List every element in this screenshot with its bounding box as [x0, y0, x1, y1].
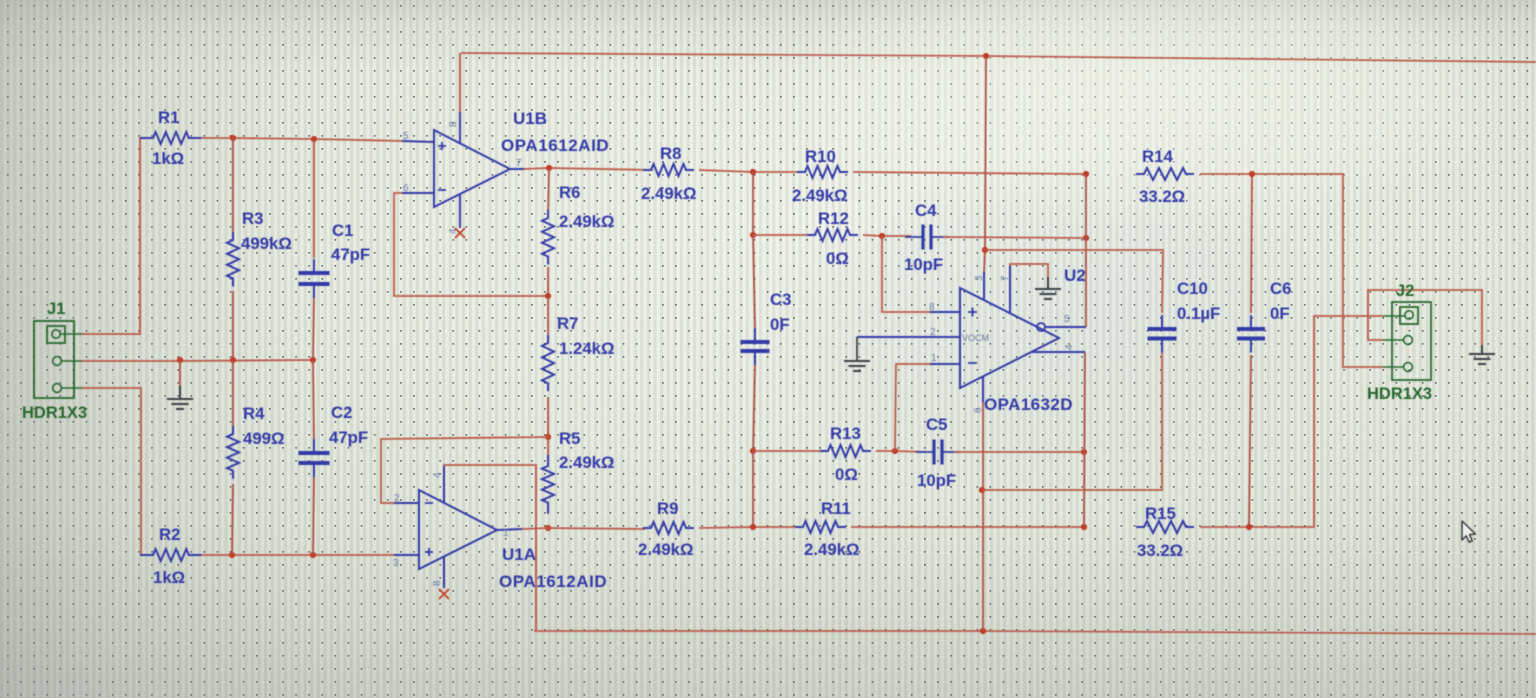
op-amp U1B [402, 112, 524, 228]
wire C3 upper lead [753, 235, 755, 328]
svg-text:R1: R1 [158, 108, 179, 127]
wire C2 bottom [313, 477, 314, 555]
wire R13 left [753, 450, 820, 452]
svg-text:J1: J1 [47, 300, 65, 318]
resistor R10 [797, 166, 848, 178]
resistor R13 [820, 445, 871, 457]
junction U2 pin3 / C10 branch [982, 247, 988, 253]
resistor R2 [140, 549, 202, 561]
wire U2 pin2 VOCM to ground [856, 337, 858, 360]
svg-text:U2: U2 [1064, 266, 1086, 285]
connector J1 [34, 321, 82, 398]
svg-text:R7: R7 [557, 314, 578, 333]
junction R12 left / C3 [750, 232, 756, 238]
wire R8 to R10 [699, 170, 797, 172]
svg-text:5: 5 [1064, 314, 1070, 325]
svg-text:2.49kΩ: 2.49kΩ [559, 212, 614, 231]
resistor R15 [1136, 521, 1194, 533]
wire U2 pin3 riser from top rail [984, 56, 986, 272]
svg-text:R2: R2 [159, 525, 180, 544]
svg-text:47pF: 47pF [329, 428, 368, 447]
wire C2 column top [313, 360, 314, 439]
bottom supply rail [534, 631, 1536, 634]
svg-text:2.49kΩ: 2.49kΩ [559, 453, 614, 472]
svg-text:R6: R6 [559, 183, 580, 202]
connector J2 [1383, 302, 1431, 380]
wire U2 out+ riser (pin5 up) [1085, 174, 1087, 327]
junction R3/R4 mid row [230, 357, 236, 363]
junction R2/C2 [310, 552, 316, 558]
junction R1/R3 [230, 135, 236, 141]
wire R11 to R15 row [851, 526, 1084, 528]
resistor R6 [542, 210, 554, 265]
junction top rail / U2 pin3 [983, 53, 989, 59]
wire R7 top [547, 296, 549, 339]
junction R13/C5/U2 pin1 [892, 448, 898, 454]
capacitor C4 [905, 225, 949, 250]
wire C1 bottom to mid row [313, 298, 314, 360]
wire U1A feedback (pin2 to R7/R5 node) [381, 437, 548, 503]
ground symbol U2 pin7 [1035, 288, 1061, 290]
svg-text:2: 2 [394, 493, 400, 504]
svg-text:5: 5 [403, 131, 409, 142]
junction R9/R11/C3 [750, 524, 756, 530]
svg-text:R11: R11 [821, 499, 851, 518]
wire U2 pin6 to bottom rail [982, 402, 984, 631]
top supply rail [461, 53, 1536, 62]
svg-text:1: 1 [503, 528, 509, 539]
svg-text:HDR1X3: HDR1X3 [22, 404, 87, 422]
wire R1 right to U1B pin5 [201, 138, 402, 141]
svg-text:C3: C3 [770, 290, 791, 309]
resistor R5 [542, 455, 554, 514]
ground symbol near J1 [179, 386, 181, 398]
wire R3 column top [232, 138, 234, 233]
wire C3 column top [752, 172, 754, 235]
capacitor C5 [916, 440, 960, 465]
svg-text:33.2Ω: 33.2Ω [1139, 187, 1185, 206]
svg-text:R10: R10 [805, 147, 836, 166]
no-connect X on U1A pin 8 [439, 589, 449, 599]
wire U2 out- riser (pin4 down) [1084, 352, 1085, 527]
ground stem J2 [1481, 345, 1483, 353]
wire J2 pin2 to ground [1368, 290, 1482, 345]
wire R10 to R14 (crosses U2 pin3 riser) [853, 172, 1086, 174]
junction R11/R15/U2out- [1081, 524, 1087, 530]
junction R10/R14/C4/U2out+ [1083, 171, 1089, 177]
junction C1/C2 mid row [310, 357, 316, 363]
wire C6 column top [1251, 174, 1252, 313]
capacitor C2 [299, 439, 330, 477]
capacitor C10 [1148, 315, 1177, 353]
capacitor C6 [1237, 315, 1265, 353]
svg-text:47pF: 47pF [331, 245, 370, 264]
capacitor C1 [299, 259, 330, 298]
svg-text:VOCM: VOCM [962, 333, 989, 343]
resistor R1 [140, 132, 202, 144]
svg-text:1kΩ: 1kΩ [152, 149, 184, 168]
resistor R11 [795, 521, 846, 533]
svg-text:10pF: 10pF [904, 255, 943, 274]
resistor R12 [807, 229, 858, 241]
wire R3 bottom to mid row [232, 291, 234, 360]
resistor R8 [643, 164, 694, 176]
junction bottom rail / U2 pin6 [980, 628, 986, 634]
svg-text:1kΩ: 1kΩ [153, 568, 185, 587]
svg-text:4: 4 [432, 472, 443, 478]
svg-text:0F: 0F [1270, 304, 1290, 323]
svg-text:OPA1612AID: OPA1612AID [499, 572, 607, 591]
wire U1B feedback (pin6 to R6/R7 node) [394, 193, 548, 296]
junction R1/C1 [311, 136, 317, 142]
resistor R4 [227, 426, 239, 479]
svg-text:2.49kΩ: 2.49kΩ [804, 540, 859, 559]
svg-text:2.49kΩ: 2.49kΩ [641, 184, 696, 203]
wire R5 bottom [547, 526, 549, 528]
junction R13 left / C3 [750, 448, 756, 454]
op-amp U1A [394, 466, 522, 588]
wire R6 top [548, 168, 549, 213]
junction R14/C6 [1249, 171, 1255, 177]
wire U2 pin1 from C5 node [895, 364, 930, 451]
junction R12/C4/U2 pin8 [879, 233, 885, 239]
svg-text:C5: C5 [926, 415, 947, 434]
svg-text:4: 4 [1064, 344, 1075, 350]
svg-text:10pF: 10pF [917, 471, 956, 490]
svg-text:C2: C2 [331, 403, 352, 422]
svg-text:7: 7 [1000, 275, 1011, 281]
svg-text:0F: 0F [770, 315, 790, 334]
svg-text:7: 7 [516, 158, 522, 169]
svg-text:499kΩ: 499kΩ [241, 234, 292, 253]
mouse cursor [1462, 521, 1476, 542]
svg-text:3: 3 [393, 558, 399, 569]
wire R12 left [753, 234, 807, 236]
wire ground stem J1 [179, 360, 181, 386]
wire C6 column bottom [1249, 355, 1251, 527]
capacitor C3 [741, 328, 770, 365]
svg-text:499Ω: 499Ω [243, 429, 284, 448]
svg-text:2.49kΩ: 2.49kΩ [792, 186, 847, 205]
svg-text:R8: R8 [660, 144, 681, 163]
wire U2 pin8 from C4 node [882, 236, 930, 312]
wire R7 bottom [547, 397, 549, 437]
svg-text:1.24kΩ: 1.24kΩ [559, 339, 614, 358]
wire C10 bottom branch [982, 352, 1162, 490]
wire J1 pin1 to R1 left [82, 138, 145, 334]
wire R4 column top [232, 360, 234, 432]
ground symbol J2 [1469, 353, 1495, 355]
wire U1B pin8 to +rail [459, 53, 461, 112]
svg-text:U1B: U1B [513, 109, 547, 128]
junction R8/R10/C3 [750, 169, 756, 175]
wire C1 column top [313, 139, 315, 258]
resistor R9 [643, 522, 694, 534]
wire U2 pin3 node to C10 top [985, 250, 1163, 313]
junction R2/R4 [229, 552, 235, 558]
svg-text:J2: J2 [1396, 282, 1414, 300]
junction R6/R7/feedback [545, 293, 551, 299]
wire R2 right to U1A pin3 [201, 554, 394, 556]
wire U1B output [524, 168, 653, 170]
svg-text:1: 1 [931, 353, 937, 364]
ground stem U2 pin7 [1047, 277, 1049, 288]
wire R9 to R11 [699, 527, 795, 528]
op-amp U2 OPA1632D [857, 266, 1086, 402]
wire C3 column bottom junction [752, 451, 754, 527]
svg-text:8: 8 [448, 121, 459, 127]
wire U1A pin4 to bottom rail [444, 465, 536, 631]
resistor R14 [1136, 168, 1194, 180]
svg-text:R5: R5 [559, 429, 580, 448]
resistor R7 [542, 335, 554, 391]
junction U1B output / R6 [546, 165, 552, 171]
wire R6 bottom [547, 267, 549, 296]
junction C5 / U2out- column [1081, 449, 1087, 455]
wire R12 to C4 [863, 235, 911, 236]
svg-text:6: 6 [403, 183, 409, 194]
wire C5 right to out- column [954, 451, 1084, 453]
junction R5/U1A output [545, 525, 551, 531]
no-connect X on U1B pin 4 [455, 228, 465, 238]
svg-text:C4: C4 [915, 201, 937, 220]
svg-text:C6: C6 [1270, 279, 1291, 298]
junction ground stem node [177, 357, 183, 363]
svg-text:HDR1X3: HDR1X3 [1367, 385, 1432, 403]
svg-text:33.2Ω: 33.2Ω [1137, 541, 1183, 560]
wire C3 lower lead [753, 365, 755, 451]
wire U1A output [522, 528, 645, 529]
svg-text:0Ω: 0Ω [826, 249, 849, 268]
svg-text:2: 2 [930, 327, 936, 338]
svg-text:OPA1632D: OPA1632D [984, 395, 1073, 414]
wire R13 to C5 [876, 451, 926, 452]
svg-text:C10: C10 [1177, 279, 1208, 298]
junction C4 / U2out+ column [1083, 235, 1089, 241]
svg-text:3: 3 [974, 275, 985, 281]
svg-text:OPA1612AID: OPA1612AID [501, 136, 609, 155]
junction U2 pin6 / C10 bottom branch [979, 487, 985, 493]
svg-text:U1A: U1A [502, 545, 536, 564]
wire R4 bottom [232, 484, 233, 555]
wire J1 pin2 row (middle) [82, 360, 313, 361]
resistor R3 [227, 232, 239, 287]
wire U2 pin7 to ground [1010, 264, 1048, 277]
svg-text:R4: R4 [243, 404, 265, 423]
svg-text:0Ω: 0Ω [835, 465, 858, 484]
svg-text:0.1µF: 0.1µF [1177, 304, 1220, 323]
ground symbol VOCM [844, 360, 870, 362]
svg-text:R12: R12 [818, 209, 849, 228]
svg-text:8: 8 [432, 580, 443, 586]
svg-text:R9: R9 [657, 499, 678, 518]
svg-text:R15: R15 [1145, 504, 1176, 523]
wire R15 right to J2 pin1 [1200, 316, 1383, 527]
junction R7/R5/U1A feedback [545, 434, 551, 440]
svg-text:2.49kΩ: 2.49kΩ [638, 540, 693, 559]
svg-text:R14: R14 [1142, 147, 1173, 166]
wire J1 pin3 down to R2 [82, 388, 145, 555]
svg-text:R13: R13 [830, 424, 861, 443]
wire C4 right to feedback column [943, 237, 1086, 238]
junction R15/C6 bottom [1246, 524, 1252, 530]
svg-text:R3: R3 [242, 209, 263, 228]
wire R5 top [547, 437, 549, 462]
svg-text:C1: C1 [332, 221, 353, 240]
wire R14 right to J2 pin3 [1200, 174, 1383, 367]
